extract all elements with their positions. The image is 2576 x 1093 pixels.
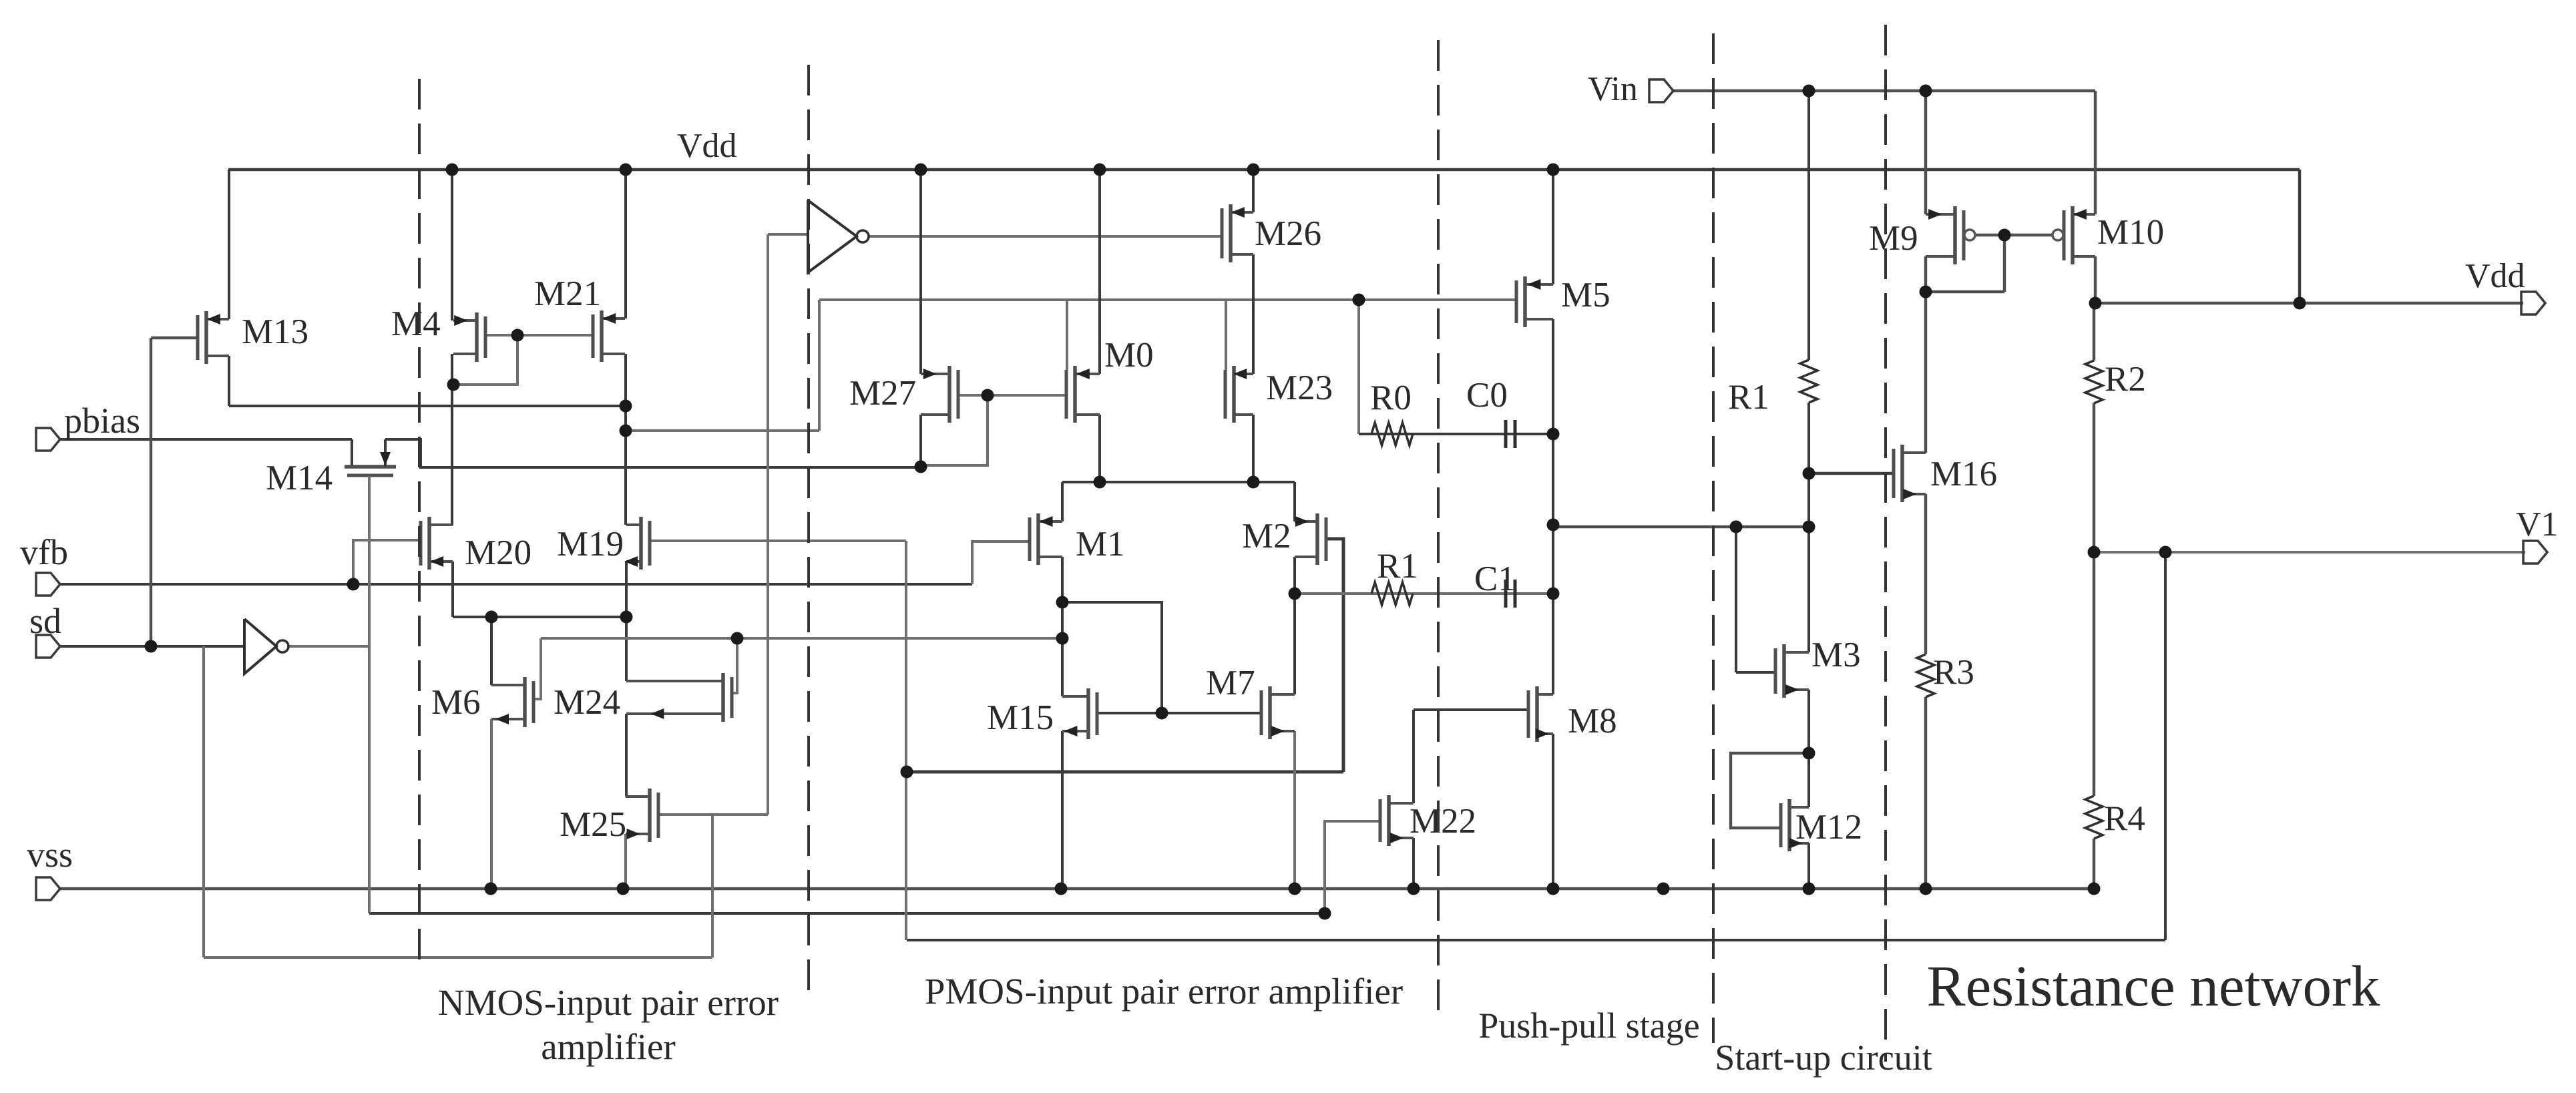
svg-text:M19: M19	[557, 525, 624, 564]
svg-text:M15: M15	[987, 698, 1054, 737]
svg-text:M27: M27	[849, 374, 916, 413]
svg-text:Vdd: Vdd	[2465, 257, 2525, 295]
svg-text:vfb: vfb	[20, 532, 68, 572]
svg-text:PMOS-input pair error amplifie: PMOS-input pair error amplifier	[925, 971, 1403, 1012]
svg-text:M7: M7	[1206, 664, 1255, 702]
svg-text:pbias: pbias	[64, 401, 140, 441]
svg-text:amplifier: amplifier	[541, 1026, 676, 1067]
svg-text:R0: R0	[1370, 379, 1412, 417]
svg-text:M5: M5	[1561, 276, 1611, 314]
svg-text:M26: M26	[1255, 214, 1321, 253]
svg-text:M12: M12	[1795, 808, 1862, 847]
svg-text:M8: M8	[1568, 702, 1617, 740]
svg-text:M4: M4	[391, 304, 441, 343]
svg-text:V1: V1	[2516, 505, 2559, 543]
svg-text:Resistance network: Resistance network	[1927, 953, 2380, 1018]
svg-text:Vdd: Vdd	[677, 127, 737, 165]
svg-text:Start-up circuit: Start-up circuit	[1715, 1038, 1932, 1078]
svg-text:M14: M14	[266, 459, 333, 497]
svg-text:M9: M9	[1869, 219, 1918, 258]
svg-text:M23: M23	[1266, 369, 1333, 407]
svg-text:M16: M16	[1930, 455, 1997, 493]
svg-text:M6: M6	[431, 683, 481, 722]
svg-text:NMOS-input pair error: NMOS-input pair error	[438, 982, 779, 1023]
svg-text:sd: sd	[29, 601, 61, 641]
svg-text:M25: M25	[560, 805, 626, 844]
svg-text:R4: R4	[2104, 799, 2145, 838]
svg-text:C1: C1	[1474, 560, 1516, 598]
svg-text:M1: M1	[1076, 525, 1125, 564]
svg-text:R3: R3	[1933, 653, 1974, 692]
svg-text:R1: R1	[1377, 547, 1418, 586]
svg-text:Vin: Vin	[1588, 70, 1638, 108]
svg-text:R2: R2	[2105, 360, 2146, 399]
svg-text:Push-pull stage: Push-pull stage	[1478, 1006, 1700, 1046]
svg-text:vss: vss	[27, 835, 73, 875]
svg-text:M20: M20	[465, 533, 531, 572]
svg-text:M2: M2	[1242, 517, 1291, 556]
svg-text:M24: M24	[554, 683, 620, 722]
svg-text:M3: M3	[1811, 636, 1861, 674]
svg-text:C0: C0	[1466, 376, 1508, 415]
svg-text:R1: R1	[1728, 378, 1769, 417]
svg-text:M22: M22	[1410, 802, 1476, 841]
svg-text:M21: M21	[534, 274, 601, 313]
svg-text:M10: M10	[2097, 213, 2164, 252]
svg-text:M13: M13	[242, 312, 308, 351]
svg-text:M0: M0	[1104, 336, 1154, 375]
